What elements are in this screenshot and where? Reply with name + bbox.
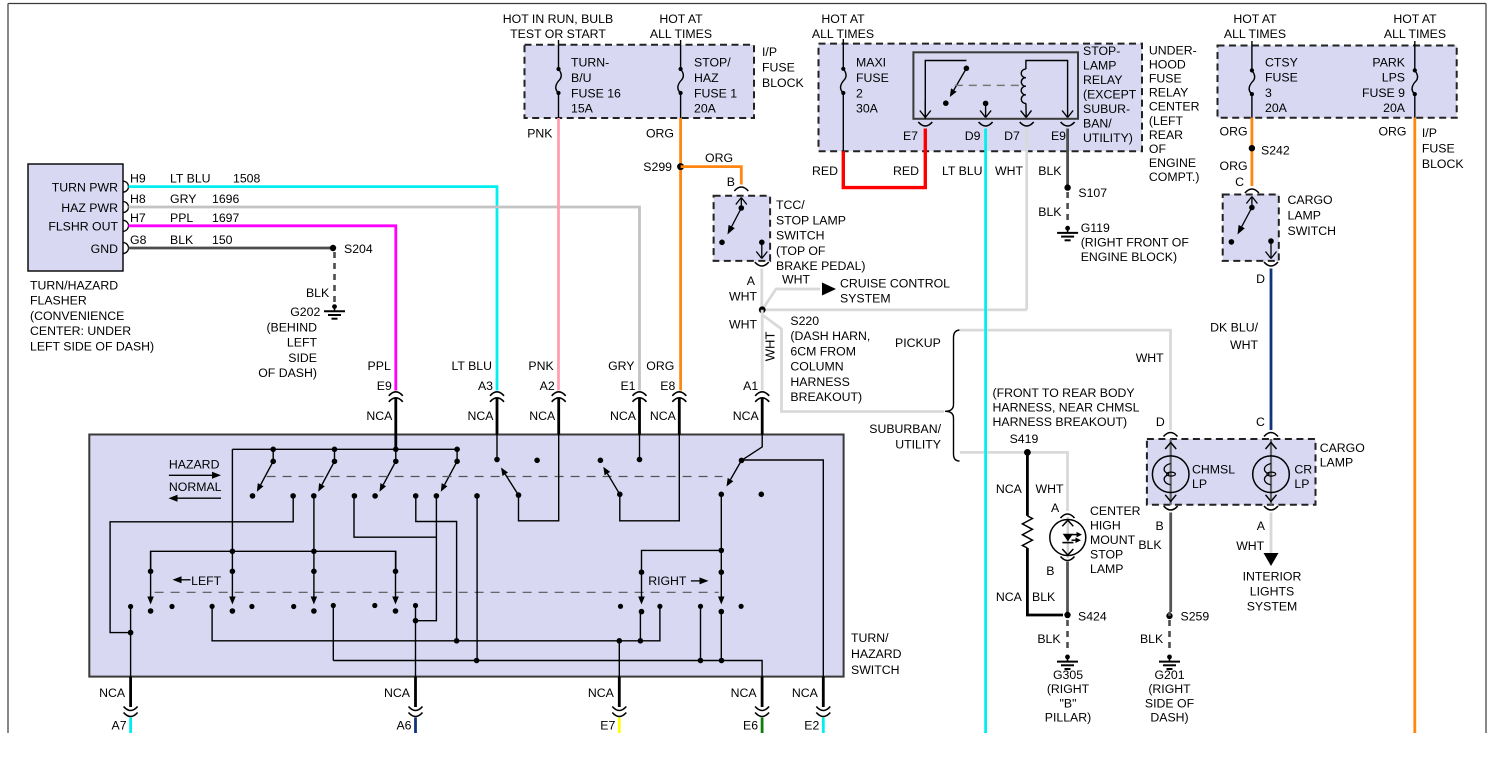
svg-text:E8: E8 — [660, 379, 675, 393]
ground G201 — [1167, 655, 1172, 660]
svg-text:RED: RED — [893, 164, 919, 178]
splice S424 — [1064, 612, 1070, 618]
lower dashed line — [155, 591, 719, 593]
wire E6 stub — [761, 718, 764, 734]
svg-text:CENTER: CENTER — [1090, 504, 1141, 518]
wire A7 contact down — [130, 607, 132, 677]
horizontal B — [333, 661, 762, 677]
wire 333 contact to horizontal B — [332, 606, 334, 661]
svg-text:E1: E1 — [620, 379, 635, 393]
svg-text:20A: 20A — [1383, 101, 1406, 115]
wire NCA (S419 to resistor) — [1026, 452, 1029, 515]
svg-text:TURN/: TURN/ — [851, 631, 889, 645]
wire E2 stub — [822, 718, 825, 734]
wire A6 stub — [414, 718, 417, 734]
svg-text:E2: E2 — [804, 719, 819, 733]
svg-text:NCA: NCA — [731, 686, 758, 700]
svg-text:HOT AT: HOT AT — [821, 12, 865, 26]
svg-text:HARNESS BREAKOUT): HARNESS BREAKOUT) — [993, 415, 1128, 429]
svg-text:HAZ: HAZ — [694, 71, 719, 85]
svg-text:NCA: NCA — [996, 482, 1023, 496]
splice S204 — [330, 245, 336, 251]
svg-text:FUSE: FUSE — [856, 71, 889, 85]
svg-text:(DASH HARN,: (DASH HARN, — [790, 329, 870, 343]
cargo lamp switch — [1223, 195, 1279, 261]
svg-text:(BEHIND: (BEHIND — [266, 321, 317, 335]
wire BLK to G202 (dashed) — [333, 252, 336, 303]
svg-text:FUSE: FUSE — [1149, 72, 1182, 86]
wire PPL 1697 (FLSHR OUT to E9) — [129, 226, 396, 391]
svg-text:RELAY: RELAY — [1083, 73, 1122, 87]
svg-text:FUSE 1: FUSE 1 — [694, 86, 737, 100]
relay contact E7 — [925, 61, 966, 119]
svg-text:LAMP: LAMP — [1288, 209, 1322, 223]
svg-text:D: D — [1256, 272, 1265, 286]
ground G305 — [1065, 655, 1070, 660]
svg-text:COMPT.): COMPT.) — [1149, 170, 1200, 184]
svg-text:G305: G305 — [1053, 668, 1083, 682]
svg-text:CARGO: CARGO — [1320, 441, 1365, 455]
svg-text:A7: A7 — [112, 719, 127, 733]
wire NCA (resistor to S424) — [1027, 548, 1063, 615]
svg-text:TURN-: TURN- — [571, 56, 609, 70]
svg-text:B: B — [1046, 564, 1054, 578]
wire BLK to G201 (dashed) — [1168, 620, 1171, 652]
svg-text:SUBURBAN/: SUBURBAN/ — [869, 422, 941, 436]
svg-text:LAMP: LAMP — [1090, 562, 1124, 576]
svg-text:UTILITY: UTILITY — [895, 437, 941, 451]
svg-text:LT BLU: LT BLU — [942, 164, 983, 178]
svg-text:ORG: ORG — [705, 151, 733, 165]
svg-text:ALL TIMES: ALL TIMES — [650, 27, 712, 41]
svg-text:SIDE: SIDE — [288, 351, 317, 365]
svg-text:FLASHER: FLASHER — [30, 294, 87, 308]
wire LT BLU 1508 (TURN PWR to A3) — [129, 187, 498, 391]
right blade at 721.3 — [719, 569, 725, 575]
svg-text:PPL: PPL — [368, 359, 391, 373]
svg-text:G8: G8 — [130, 233, 147, 247]
svg-text:G201: G201 — [1154, 668, 1184, 682]
svg-text:HARNESS: HARNESS — [790, 375, 849, 389]
svg-text:ORG: ORG — [1220, 159, 1248, 173]
wire WHT brace to S419 / LED A — [960, 452, 1068, 511]
svg-text:SYSTEM: SYSTEM — [840, 292, 891, 306]
svg-text:RELAY: RELAY — [1149, 86, 1188, 100]
wire sw2 right contact — [354, 496, 436, 537]
wire RED (maxi fuse to relay E7) — [843, 129, 925, 188]
svg-text:MAXI: MAXI — [856, 56, 886, 70]
left blade at 313.9 — [313, 551, 315, 571]
fuse MAXI FUSE 2 30A — [842, 44, 844, 69]
svg-text:UNDER-: UNDER- — [1149, 43, 1197, 57]
connector A6 — [414, 677, 417, 707]
svg-text:1508: 1508 — [233, 172, 261, 186]
svg-text:BREAKOUT): BREAKOUT) — [790, 390, 862, 404]
svg-text:1697: 1697 — [212, 211, 240, 225]
relay link (dashed) — [955, 84, 1023, 86]
hazard switch blade at 334.5 — [332, 447, 338, 453]
svg-text:(RIGHT FRONT OF: (RIGHT FRONT OF — [1081, 236, 1190, 250]
wire WHT S220 branch to brace — [763, 316, 944, 412]
switch blade A1 — [742, 435, 763, 461]
svg-text:SUBUR-: SUBUR- — [1083, 102, 1130, 116]
svg-text:WHT: WHT — [1230, 338, 1258, 352]
connector E6 — [761, 677, 764, 707]
svg-text:CENTER: CENTER — [1149, 100, 1200, 114]
svg-text:HARNESS, NEAR CHMSL: HARNESS, NEAR CHMSL — [993, 401, 1140, 415]
svg-text:NCA: NCA — [792, 686, 819, 700]
lamp CR LP — [1270, 439, 1272, 505]
left blade at 232.4 — [231, 551, 233, 571]
wire WHT to cruise control — [762, 289, 820, 310]
blade 721 contact drop — [720, 612, 722, 661]
fuse TURN-B/U FUSE 16 15A — [558, 45, 560, 69]
svg-text:BAN/: BAN/ — [1083, 117, 1112, 131]
wire A7 stub — [129, 718, 132, 734]
wire PNK (fuse16 to A2) — [557, 118, 560, 391]
svg-text:20A: 20A — [1265, 101, 1288, 115]
svg-text:S242: S242 — [1261, 144, 1290, 158]
splice S419 — [1024, 449, 1031, 456]
svg-text:A6: A6 — [396, 719, 411, 733]
svg-text:D: D — [1156, 415, 1165, 429]
splice S242 — [1249, 145, 1255, 151]
svg-text:TURN/HAZARD: TURN/HAZARD — [30, 279, 118, 293]
svg-text:LAMP: LAMP — [1320, 456, 1354, 470]
right blade at 641.5 — [639, 569, 645, 575]
svg-text:DK BLU/: DK BLU/ — [1210, 321, 1258, 335]
svg-text:(FRONT TO REAR BODY: (FRONT TO REAR BODY — [993, 386, 1135, 400]
svg-text:STOP-: STOP- — [1083, 44, 1120, 58]
svg-text:GRY: GRY — [608, 359, 634, 373]
svg-text:BLK: BLK — [306, 286, 330, 300]
wire ORG (CTSY to cargo lamp switch C) — [1251, 118, 1254, 186]
splice S259 — [1166, 613, 1172, 619]
svg-text:ALL TIMES: ALL TIMES — [1384, 27, 1446, 41]
svg-text:A2: A2 — [540, 379, 555, 393]
svg-text:FUSE: FUSE — [762, 60, 795, 74]
svg-text:WHT: WHT — [729, 290, 757, 304]
svg-text:S424: S424 — [1078, 610, 1107, 624]
svg-text:ALL TIMES: ALL TIMES — [812, 27, 874, 41]
svg-text:S107: S107 — [1078, 186, 1107, 200]
svg-text:NORMAL: NORMAL — [169, 480, 222, 494]
svg-text:ORG: ORG — [646, 359, 674, 373]
svg-text:NCA: NCA — [996, 590, 1023, 604]
wire LT BLU (relay D9 down) — [984, 129, 987, 734]
svg-text:"B": "B" — [1060, 696, 1077, 710]
wire BLK to G119 (dashed) — [1066, 192, 1069, 224]
stationary contacts — [128, 604, 133, 609]
svg-text:PARK: PARK — [1372, 56, 1405, 70]
left blade at 150.6 — [150, 551, 152, 571]
svg-text:LPS: LPS — [1382, 71, 1405, 85]
svg-text:LEFT: LEFT — [191, 574, 222, 588]
turn/hazard flasher module — [28, 164, 123, 271]
svg-text:FUSE: FUSE — [1265, 71, 1298, 85]
svg-text:ENGINE: ENGINE — [1149, 156, 1196, 170]
svg-text:BRAKE PEDAL): BRAKE PEDAL) — [776, 259, 866, 273]
svg-text:LP: LP — [1294, 477, 1309, 491]
svg-text:HAZARD: HAZARD — [169, 458, 220, 472]
svg-text:S204: S204 — [344, 242, 373, 256]
wire WHT (CR A to interior lights) — [1270, 513, 1273, 554]
svg-text:GRY: GRY — [170, 192, 196, 206]
I/P fuse block (left, dashed) — [525, 45, 755, 118]
svg-text:E7: E7 — [600, 719, 615, 733]
svg-text:NCA: NCA — [588, 686, 615, 700]
svg-text:HIGH: HIGH — [1090, 519, 1121, 533]
relay pin connectors — [918, 122, 932, 126]
svg-text:LAMP: LAMP — [1083, 59, 1117, 73]
svg-text:H7: H7 — [130, 211, 146, 225]
resistor — [1022, 516, 1032, 548]
svg-text:FUSE: FUSE — [1422, 141, 1455, 155]
svg-text:HOT AT: HOT AT — [1393, 12, 1437, 26]
svg-text:PNK: PNK — [527, 127, 553, 141]
svg-text:UTILITY): UTILITY) — [1083, 131, 1133, 145]
fuse STOP/HAZ FUSE 1 20A — [680, 45, 682, 69]
svg-text:NCA: NCA — [610, 409, 637, 423]
hazard switch blade at 457.1 — [454, 447, 460, 453]
svg-text:(TOP OF: (TOP OF — [776, 244, 826, 258]
right turn bank — [642, 550, 722, 572]
page frame — [8, 3, 1486, 5]
wire ORG (PARK LPS down) — [1413, 118, 1416, 733]
svg-text:LEFT SIDE OF DASH): LEFT SIDE OF DASH) — [30, 339, 154, 353]
svg-text:150: 150 — [212, 233, 233, 247]
svg-text:NCA: NCA — [366, 409, 393, 423]
svg-text:A: A — [1051, 501, 1060, 515]
svg-text:A: A — [747, 274, 756, 288]
brace (pickup / suburban-utility split) — [945, 330, 960, 461]
connector A7 — [129, 677, 132, 707]
ground G119 — [1065, 226, 1070, 231]
svg-text:D7: D7 — [1004, 129, 1020, 143]
wire stubs above fuse boxes — [558, 40, 560, 45]
hazard switch blade at 273.2 — [270, 447, 276, 453]
svg-text:HOT IN RUN, BULB: HOT IN RUN, BULB — [503, 12, 613, 26]
svg-text:B: B — [1155, 519, 1163, 533]
svg-text:BLK: BLK — [1140, 632, 1164, 646]
svg-text:WHT: WHT — [729, 318, 757, 332]
svg-text:NCA: NCA — [650, 409, 677, 423]
TCC/stop lamp switch — [714, 196, 771, 261]
svg-text:E6: E6 — [743, 719, 758, 733]
svg-text:HAZARD: HAZARD — [851, 647, 902, 661]
svg-text:BLK: BLK — [1138, 538, 1162, 552]
wire DK BLU/WHT (cargo switch D to CR lamp C) — [1270, 269, 1273, 431]
svg-text:CENTER: UNDER: CENTER: UNDER — [30, 324, 131, 338]
wire sw3 right contact — [416, 496, 457, 641]
svg-text:(CONVENIENCE: (CONVENIENCE — [30, 309, 124, 323]
svg-text:S419: S419 — [1010, 432, 1039, 446]
svg-text:6CM FROM: 6CM FROM — [790, 344, 856, 358]
wire BLK to G305 (dashed) — [1066, 620, 1069, 652]
svg-text:E9: E9 — [1051, 129, 1066, 143]
stop-lamp relay (inner box) — [913, 52, 1078, 119]
svg-text:WHT: WHT — [782, 273, 810, 287]
svg-text:ORG: ORG — [1378, 125, 1406, 139]
svg-text:(LEFT: (LEFT — [1149, 114, 1184, 128]
svg-text:PILLAR): PILLAR) — [1045, 711, 1091, 725]
relay blade — [954, 68, 967, 90]
svg-text:G119: G119 — [1081, 221, 1110, 235]
svg-text:SWITCH: SWITCH — [1288, 224, 1337, 238]
svg-text:FLSHR OUT: FLSHR OUT — [48, 220, 118, 234]
wire GRY 1696 (HAZ PWR to E1) — [129, 207, 640, 391]
switch blade — [732, 208, 742, 227]
svg-text:WHT: WHT — [1136, 351, 1164, 365]
svg-text:INTERIOR: INTERIOR — [1243, 570, 1302, 584]
svg-text:FUSE 9: FUSE 9 — [1362, 86, 1405, 100]
svg-text:C: C — [1256, 415, 1265, 429]
svg-text:SWITCH: SWITCH — [776, 229, 825, 243]
svg-text:BLOCK: BLOCK — [762, 76, 804, 90]
svg-text:BLK: BLK — [1038, 164, 1062, 178]
svg-text:TURN PWR: TURN PWR — [52, 180, 118, 194]
svg-text:S220: S220 — [790, 314, 819, 328]
svg-text:A: A — [1257, 519, 1266, 533]
svg-text:MOUNT: MOUNT — [1090, 533, 1136, 547]
svg-text:CTSY: CTSY — [1265, 56, 1298, 70]
svg-text:WHT: WHT — [1236, 539, 1264, 553]
turn/hazard switch assembly — [89, 435, 843, 677]
svg-text:HAZ PWR: HAZ PWR — [61, 201, 118, 215]
svg-text:ALL TIMES: ALL TIMES — [1224, 27, 1286, 41]
svg-text:30A: 30A — [856, 102, 879, 116]
svg-text:I/P: I/P — [1422, 126, 1437, 140]
relay coil D7-E9 — [1021, 69, 1026, 103]
svg-text:PNK: PNK — [528, 359, 554, 373]
fuse PARK LPS FUSE 9 20A — [1414, 46, 1416, 71]
svg-text:WHT: WHT — [763, 332, 778, 362]
wire E7 stub — [618, 718, 621, 734]
svg-text:I/P: I/P — [762, 45, 777, 59]
svg-text:BLK: BLK — [170, 233, 194, 247]
svg-text:A3: A3 — [478, 379, 493, 393]
svg-text:D9: D9 — [965, 129, 981, 143]
svg-text:E7: E7 — [903, 129, 918, 143]
blade 640 contact drop — [639, 612, 641, 641]
svg-text:TCC/: TCC/ — [776, 198, 805, 212]
svg-text:RIGHT: RIGHT — [648, 574, 687, 588]
wire A6 contact down — [415, 606, 417, 677]
cargo lamp assembly — [1147, 439, 1316, 505]
svg-text:PICKUP: PICKUP — [895, 336, 941, 350]
wire BLK 150 (GND to S204) — [129, 247, 334, 250]
upper dashed line — [267, 476, 723, 478]
connector E2 — [822, 677, 825, 707]
svg-text:SYSTEM: SYSTEM — [1247, 600, 1298, 614]
wire E7 drop — [618, 641, 620, 677]
svg-text:A1: A1 — [743, 379, 758, 393]
svg-text:LIGHTS: LIGHTS — [1250, 585, 1294, 599]
svg-text:(RIGHT: (RIGHT — [1047, 682, 1090, 696]
bus from E9 — [232, 448, 457, 450]
hazard switch blade at 395.8 — [393, 447, 399, 453]
contact 700 drop — [700, 606, 702, 660]
svg-text:GND: GND — [91, 242, 118, 256]
svg-text:S299: S299 — [643, 160, 672, 174]
svg-text:(EXCEPT: (EXCEPT — [1083, 88, 1137, 102]
splice S299 — [677, 163, 684, 170]
svg-text:BLK: BLK — [1038, 205, 1062, 219]
svg-text:B: B — [727, 175, 735, 189]
I/P fuse block (right, dashed) — [1218, 46, 1457, 118]
svg-text:OF DASH): OF DASH) — [258, 366, 317, 380]
svg-text:STOP/: STOP/ — [694, 56, 731, 70]
svg-text:H9: H9 — [130, 172, 146, 186]
svg-text:2: 2 — [856, 86, 863, 100]
lamp CHMSL LP — [1170, 439, 1172, 505]
svg-text:15A: 15A — [571, 102, 594, 116]
svg-text:LP: LP — [1192, 477, 1207, 491]
wire BLK (LED B to S424) — [1066, 562, 1069, 616]
svg-text:HOOD: HOOD — [1149, 57, 1186, 71]
svg-text:3: 3 — [1265, 86, 1272, 100]
long vertical bus to lower-left section — [231, 449, 233, 551]
svg-text:ORG: ORG — [646, 127, 674, 141]
wire WHT (relay D7 to S220) — [1025, 129, 1028, 310]
svg-text:(RIGHT: (RIGHT — [1148, 682, 1191, 696]
svg-text:LEFT: LEFT — [287, 336, 318, 350]
svg-text:G202: G202 — [290, 305, 320, 319]
splice S107 — [1064, 184, 1070, 190]
svg-text:CR: CR — [1294, 463, 1312, 477]
svg-text:SIDE OF: SIDE OF — [1145, 696, 1195, 710]
wire BLK (relay E9 to S107) — [1066, 129, 1069, 188]
svg-text:NCA: NCA — [529, 409, 556, 423]
connector E7 — [618, 677, 621, 707]
wire ORG (fuse1 to E8) — [679, 118, 682, 391]
svg-text:CARGO: CARGO — [1288, 193, 1333, 207]
svg-text:20A: 20A — [694, 102, 717, 116]
wire sw1 right contact — [110, 496, 293, 633]
svg-text:BLOCK: BLOCK — [1422, 157, 1464, 171]
svg-text:WHT: WHT — [1036, 482, 1064, 496]
svg-text:HOT AT: HOT AT — [1233, 12, 1277, 26]
horizontal A — [212, 606, 660, 641]
svg-text:TEST OR START: TEST OR START — [510, 27, 606, 41]
svg-text:RED: RED — [812, 164, 838, 178]
wire sw4 right contact — [476, 496, 478, 661]
switch blade A3/A2 — [496, 435, 498, 460]
svg-text:B/U: B/U — [571, 71, 592, 85]
svg-text:DASH): DASH) — [1150, 711, 1188, 725]
switch blade E1/E8 — [639, 435, 641, 460]
wire WHT brace to cargo-lamp D — [960, 330, 1171, 430]
svg-text:ENGINE BLOCK): ENGINE BLOCK) — [1081, 250, 1177, 264]
svg-text:BLK: BLK — [1037, 632, 1061, 646]
svg-text:HOT AT: HOT AT — [659, 12, 703, 26]
relay contact D9 — [983, 101, 989, 107]
svg-text:COLUMN: COLUMN — [790, 360, 843, 374]
svg-text:ORG: ORG — [1220, 125, 1248, 139]
ground G202 — [332, 304, 337, 309]
svg-text:H8: H8 — [130, 192, 146, 206]
svg-text:E9: E9 — [377, 379, 392, 393]
svg-text:1696: 1696 — [212, 192, 240, 206]
wire WHT down to A1 — [761, 310, 764, 391]
left turn bank — [151, 551, 396, 571]
svg-text:CHMSL: CHMSL — [1192, 463, 1235, 477]
svg-text:LT BLU: LT BLU — [170, 172, 211, 186]
wire WHT from TCC A — [760, 269, 763, 310]
underhood fuse relay center (dashed) — [819, 44, 1143, 152]
svg-text:NCA: NCA — [99, 686, 126, 700]
svg-text:SWITCH: SWITCH — [851, 663, 900, 677]
